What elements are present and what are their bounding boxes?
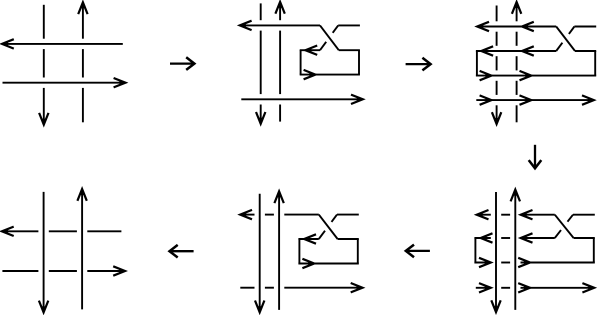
diagram 4 vertical strand V1 oriented down, over-crossing four horizontals — [491, 192, 500, 312]
diagram 6 horizontal strand H1 oriented left, passes under verticals — [2, 227, 122, 236]
diagram 6 vertical strand V1 oriented down, over-crossing both horizontals — [39, 192, 48, 313]
diagram 5 kink top-right horizontal — [337, 214, 359, 216]
diagram 2 kink over-strand diagonal — [320, 25, 339, 50]
transition arrow: diagram 3 to diagram 4 (down) — [529, 145, 542, 169]
diagram 3 vertical strand V2 oriented up, passes under four horizontals — [512, 2, 521, 122]
diagram 4 bottom strand oriented right with two mid arrowheads, under verticals — [476, 283, 594, 292]
diagram 5 vertical strand V2 oriented up, over-crossing horizontals — [274, 191, 283, 310]
diagram 1 vertical strand V2 oriented up, passes under both horizontals — [78, 2, 87, 122]
diagram 6 vertical strand V2 oriented up, over-crossing both horizontals — [77, 189, 86, 309]
diagram 4 box top edge left part oriented left with two arrowheads, under verticals — [474, 233, 554, 242]
diagram 5 kink over-strand diagonal — [319, 215, 338, 239]
diagram 4 box left edge — [474, 238, 476, 263]
diagram 3 box bottom edge oriented right with two arrowheads, over verticals — [476, 71, 596, 80]
diagram 3 kink top-right horizontal — [574, 26, 596, 28]
diagram 4 kink box top edge right part — [574, 237, 595, 239]
transition arrow: diagram 1 to diagram 2 (right) — [170, 57, 194, 70]
diagram 2 kink box left edge — [300, 50, 302, 74]
diagram 1 horizontal strand H1 oriented left, over-crossing both verticals — [2, 39, 123, 48]
diagram 4 box bottom edge oriented right with two arrowheads, under verticals — [474, 258, 594, 267]
diagram 2 vertical strand V2 oriented up, passes under horizontals — [275, 2, 284, 122]
diagram 3 kink over-strand diagonal — [556, 27, 575, 52]
diagram 3 bottom strand oriented right with two mid arrowheads, over verticals — [476, 95, 594, 104]
diagram 3 box top edge left part oriented left with two arrowheads, over verticals — [476, 46, 556, 55]
diagram 2 kink box top edge right part — [339, 49, 360, 51]
diagram 2 kink box top edge left part with left arrowhead — [300, 46, 320, 55]
diagram 2 kink box right edge — [358, 50, 360, 74]
diagram 5 kink under-strand diagonal (broken) — [319, 215, 337, 239]
diagram 5 top strand oriented left, passes under verticals — [240, 210, 319, 219]
diagram 5 vertical strand V1 oriented down, over-crossing horizontals — [255, 194, 264, 312]
strand diagram 1 (top-left), vertical strand V1 oriented down, passes under both horizontals — [39, 5, 48, 125]
transition arrow: diagram 2 to diagram 3 (right) — [406, 58, 431, 71]
diagram 2 kink under-strand diagonal (broken) — [320, 25, 338, 50]
diagram 4 kink under-strand diagonal (broken) — [555, 215, 573, 238]
diagram 5 bottom strand oriented right, passes under verticals — [240, 283, 362, 292]
diagram 5 kink box top edge right part — [338, 238, 359, 240]
diagram 4 kink over-strand diagonal — [555, 215, 574, 238]
diagram 4 top strand oriented left with mid arrowhead, passes under verticals — [477, 210, 555, 219]
diagram 2 bottom strand oriented right with over-crossings — [241, 95, 362, 104]
diagram 5 kink box right edge — [357, 239, 359, 264]
diagram 2 top strand oriented left with over-crossings — [240, 21, 320, 30]
diagram 4 kink top-right horizontal — [573, 214, 595, 216]
diagram 3 vertical strand V1 oriented down, passes under four horizontals — [492, 6, 501, 125]
diagram 5 kink box left edge — [298, 239, 300, 264]
diagram 2 vertical strand V1 oriented down, passes under horizontals — [256, 3, 265, 123]
diagram 4 box right edge — [593, 238, 595, 263]
diagram 3 box right edge — [594, 51, 596, 76]
diagram 3 top strand oriented left with over-crossings and mid arrowhead — [477, 22, 556, 31]
diagram 4 vertical strand V2 oriented up, over-crossing four horizontals — [511, 190, 520, 310]
diagram 2 kink box bottom edge with right arrowhead — [300, 70, 360, 79]
diagram 5 kink box top edge left part with left arrowhead — [298, 234, 318, 243]
transition arrow: diagram 4 to diagram 5 (left) — [406, 245, 430, 258]
diagram 5 kink box bottom edge with right arrowhead — [298, 259, 358, 268]
diagram 1 horizontal strand H2 oriented right, over-crossing both verticals — [3, 78, 126, 87]
diagram 6 horizontal strand H2 oriented right, passes under verticals — [2, 266, 125, 275]
diagram 2 kink top-right horizontal — [338, 24, 360, 26]
transition arrow: diagram 5 to diagram 6 (left) — [170, 245, 194, 258]
diagram 3 box left edge — [476, 51, 478, 76]
diagram 3 kink box top edge right part — [575, 50, 596, 52]
diagram 3 kink under-strand diagonal (broken) — [556, 27, 574, 52]
